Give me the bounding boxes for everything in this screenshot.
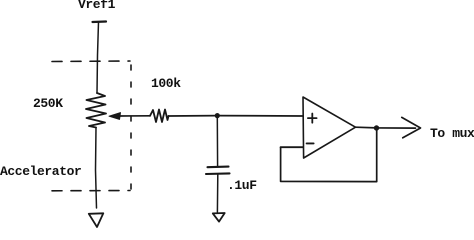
wire op-amp output: [356, 126, 416, 129]
wire Vref1 to potentiometer top: [97, 22, 99, 93]
op-amp U1: [303, 97, 356, 158]
ground (capacitor): [213, 213, 225, 222]
ground (potentiometer): [89, 213, 104, 227]
label 100k: [151, 76, 181, 91]
label 250K: [33, 96, 63, 111]
label .1uF: [227, 178, 257, 193]
node Vref1 terminal: [93, 20, 107, 23]
output arrow to mux: [402, 117, 421, 137]
wire junction to capacitor: [216, 116, 218, 167]
node junction dot: [215, 113, 220, 118]
label Accelerator: [0, 164, 81, 179]
label To mux: [430, 126, 474, 141]
wire feedback loop: [281, 128, 377, 181]
wire capacitor to ground: [216, 174, 218, 212]
label Vref1: [78, 0, 115, 12]
wire resistor to op-amp input: [169, 115, 303, 117]
accelerator dashed enclosure: [52, 61, 131, 191]
resistor R2 100k: [150, 110, 169, 123]
wiper arrow of potentiometer: [109, 113, 150, 120]
node output junction dot: [374, 125, 379, 130]
potentiometer R1 250K: [86, 93, 106, 128]
capacitor C1 .1uF: [206, 167, 230, 174]
wire potentiometer bottom to ground: [96, 128, 97, 209]
wire inverting input: [281, 146, 303, 148]
